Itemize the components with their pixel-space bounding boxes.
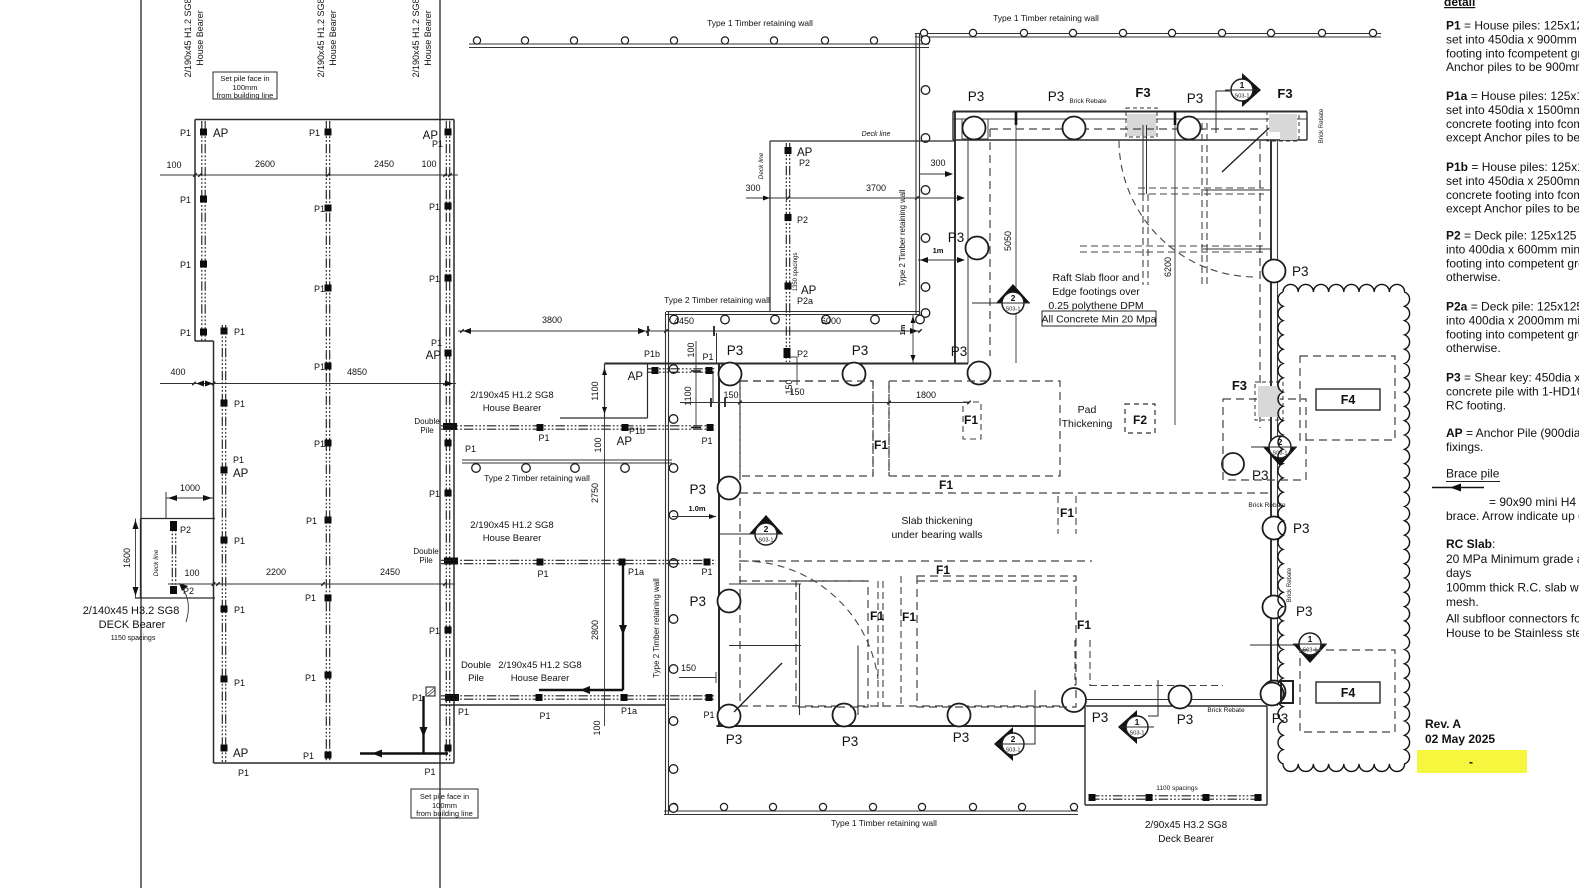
middle section bottom boundary y=705 <box>440 704 666 706</box>
svg-text:Brick Rebate: Brick Rebate <box>1207 707 1245 714</box>
piles on column 1b <box>221 328 228 335</box>
svg-text:P1: P1 <box>539 711 550 721</box>
svg-text:from building line: from building line <box>416 809 473 818</box>
svg-text:Deck line: Deck line <box>153 549 160 576</box>
svg-text:150: 150 <box>681 663 696 673</box>
P3 circle on dashed zone <box>1222 453 1244 475</box>
svg-text:F1: F1 <box>936 563 950 577</box>
house slab top wall band with brick rebate <box>953 111 1307 113</box>
svg-text:P1a = House piles: 125x125 H5: P1a = House piles: 125x125 H5 <box>1446 89 1579 103</box>
svg-text:300: 300 <box>930 158 945 168</box>
150/1800 dimension line y=402.5 <box>680 402 969 404</box>
svg-text:F1: F1 <box>1077 618 1091 632</box>
svg-text:3800: 3800 <box>542 315 562 325</box>
svg-text:Double: Double <box>461 660 491 671</box>
svg-text:F4: F4 <box>1341 686 1356 700</box>
svg-text:Double: Double <box>414 417 440 426</box>
braced pile P1 (hatched) <box>426 687 435 696</box>
P3 circles: left edge <box>966 237 989 260</box>
section marker 2 S03-1 (upper left) <box>972 284 1030 314</box>
dimension line y=175 (100/2600/2450/100) <box>160 174 458 176</box>
set pile face note box (bottom) <box>411 789 478 818</box>
svg-text:P3: P3 <box>1187 91 1204 106</box>
dashed wall footing y=246/252 <box>1080 245 1264 247</box>
svg-text:100: 100 <box>166 160 181 170</box>
svg-text:P1: P1 <box>458 707 469 717</box>
dashed wall footing y=188/194 <box>1138 187 1264 189</box>
svg-text:F3: F3 <box>1277 86 1292 101</box>
svg-text:P1: P1 <box>465 444 476 454</box>
Type 2 timber retaining wall (vertical left, x=667) <box>665 312 667 814</box>
svg-text:AP: AP <box>628 371 644 383</box>
svg-text:P1: P1 <box>180 260 191 270</box>
Type 2 timber retaining wall (horizontal lower, y=460) <box>462 459 672 461</box>
svg-text:P1: P1 <box>314 439 325 449</box>
5050 dimension (vertical) <box>1015 113 1017 363</box>
F1 pair x=878/883 <box>877 581 879 707</box>
svg-text:P2: P2 <box>799 158 810 168</box>
svg-text:2/190x45 H1.2 SG8: 2/190x45 H1.2 SG8 <box>183 0 193 78</box>
svg-text:S03-1: S03-1 <box>759 538 774 544</box>
svg-text:Raft Slab floor and: Raft Slab floor and <box>1053 272 1140 284</box>
svg-text:1: 1 <box>1135 717 1140 727</box>
P3 circles: right edge <box>1263 260 1286 283</box>
svg-text:House Bearer: House Bearer <box>483 533 542 544</box>
svg-text:100: 100 <box>686 342 696 357</box>
svg-text:Rev. A: Rev. A <box>1425 717 1461 731</box>
1.0m arrow (to slab edge) <box>672 516 716 518</box>
section marker 2 S03-1 (right) <box>1251 436 1297 466</box>
svg-text:1m: 1m <box>933 246 944 255</box>
svg-text:P3: P3 <box>726 732 743 747</box>
house slab left edge band <box>954 112 956 364</box>
brace arrow horizontal (left grid) <box>360 752 448 754</box>
piles on column 3 <box>445 129 452 136</box>
svg-text:P2: P2 <box>180 525 191 535</box>
house pile grid outline (left block) <box>195 119 454 121</box>
svg-text:days: days <box>1446 566 1471 580</box>
svg-text:100: 100 <box>592 720 602 735</box>
svg-text:P3: P3 <box>1272 711 1289 726</box>
svg-text:Pile: Pile <box>468 673 484 684</box>
svg-text:2450: 2450 <box>380 567 400 577</box>
svg-text:100: 100 <box>593 437 603 452</box>
svg-text:2: 2 <box>1011 293 1016 303</box>
section marker 2 S03-1 (bottom) <box>994 690 1035 761</box>
svg-text:RC footing.: RC footing. <box>1446 398 1506 412</box>
door swing arc (bottom) <box>742 561 878 679</box>
svg-text:House Bearer: House Bearer <box>328 10 338 66</box>
P3 circles: top band <box>963 117 986 140</box>
svg-text:Brace pile: Brace pile <box>1446 467 1500 481</box>
svg-text:P1 = House piles: 125x125 H5: P1 = House piles: 125x125 H5 SG8 <box>1446 19 1579 33</box>
svg-text:AP = Anchor Pile (900dia min): AP = Anchor Pile (900dia min) with M16 <box>1446 426 1579 440</box>
svg-text:P1a: P1a <box>621 706 637 716</box>
svg-text:P1: P1 <box>234 605 245 615</box>
dimension line y=584 (100/2200/2450) <box>168 583 455 585</box>
P3 circles: slab edge y=363 <box>719 363 742 386</box>
svg-text:P1: P1 <box>701 567 712 577</box>
svg-text:Deck Bearer: Deck Bearer <box>1158 834 1214 845</box>
small dashed box C with F1 <box>963 402 981 439</box>
svg-text:DECK Bearer: DECK Bearer <box>99 619 166 631</box>
svg-text:Set pile face in: Set pile face in <box>220 74 269 83</box>
retaining wall dimension line y=331 (3800/4450/6000) <box>458 330 920 332</box>
svg-text:Double: Double <box>413 547 439 556</box>
svg-text:1m: 1m <box>898 324 907 335</box>
deck bump outline (left) <box>141 518 216 520</box>
Type 1 timber retaining wall (top-right segment) <box>915 33 1381 35</box>
svg-text:Brick Rebate: Brick Rebate <box>1319 108 1325 143</box>
svg-text:Pile: Pile <box>419 556 433 565</box>
svg-text:P1: P1 <box>314 284 325 294</box>
house bearer column 2 (x=328) <box>325 121 327 762</box>
svg-text:Brick Rebate: Brick Rebate <box>1287 567 1293 602</box>
F1 wall pair between rooms <box>872 381 874 476</box>
svg-text:F1: F1 <box>902 610 916 624</box>
notch box around AP bearer row <box>604 364 606 419</box>
bearer row y=697.5 <box>441 695 716 697</box>
svg-text:House Bearer: House Bearer <box>423 10 433 66</box>
F3 pad top (shaded) <box>1127 114 1156 136</box>
svg-text:1100 spacings: 1100 spacings <box>1156 785 1198 792</box>
svg-text:Type 1 Timber retaining wal: Type 1 Timber retaining wall <box>707 18 813 28</box>
svg-text:P1b = House piles: 125x125 H5: P1b = House piles: 125x125 H5 <box>1446 160 1579 174</box>
svg-text:under bearing walls: under bearing walls <box>891 529 982 541</box>
svg-text:1.0m: 1.0m <box>688 504 705 513</box>
svg-text:P1: P1 <box>429 626 440 636</box>
svg-text:P1: P1 <box>703 710 714 720</box>
svg-text:Slab thickening: Slab thickening <box>901 515 972 527</box>
dashed zone right (x=1223) <box>1223 399 1306 480</box>
svg-text:1000: 1000 <box>180 483 200 493</box>
svg-text:P1: P1 <box>314 362 325 372</box>
door swing arc (top) <box>1119 141 1256 277</box>
yellow highlight <box>1417 750 1527 773</box>
svg-text:P1: P1 <box>432 139 443 149</box>
rebate box top-left corner <box>962 119 988 139</box>
deck bearer column (x=174) <box>171 522 173 594</box>
piles P1/AP on column 1 <box>200 129 207 136</box>
svg-text:All subfloor connectors for th: All subfloor connectors for the <box>1446 612 1579 626</box>
svg-text:concrete footing into fcompete: concrete footing into fcompetent <box>1446 117 1579 131</box>
edge footing dashed (right inner) <box>1259 141 1261 428</box>
svg-text:Set pile face in: Set pile face in <box>420 792 469 801</box>
P3 circles: left edge lower slab <box>718 477 741 500</box>
svg-text:otherwise.: otherwise. <box>1446 270 1501 284</box>
site boundary line right <box>439 0 441 888</box>
svg-text:P1: P1 <box>537 569 548 579</box>
dimension line y=198 (300/3700) <box>746 197 963 199</box>
Type 2 timber retaining wall (horizontal mid, y=312) <box>666 311 920 313</box>
dimension 300 (top right of middle deck) <box>920 173 952 175</box>
site boundary line left <box>140 0 142 888</box>
house bearer column 3 (x=448) <box>445 121 447 762</box>
bearer row y=427.5 <box>441 425 716 427</box>
svg-text:detail: detail <box>1444 0 1475 9</box>
lower slab left edge x=718 <box>712 371 714 403</box>
svg-text:P1: P1 <box>306 516 317 526</box>
diagonal line (top-right) <box>1222 128 1269 172</box>
svg-text:AP: AP <box>617 436 633 448</box>
svg-text:P1: P1 <box>429 274 440 284</box>
svg-text:-: - <box>1469 755 1473 769</box>
svg-text:F1: F1 <box>964 413 978 427</box>
svg-text:2800: 2800 <box>590 620 600 640</box>
svg-text:20 MPa Minimum grade at 28: 20 MPa Minimum grade at 28 <box>1446 552 1579 566</box>
svg-text:set into 450dia x 2500mm deep: set into 450dia x 2500mm deep <box>1446 174 1579 188</box>
edge footing dashed (left/top inner) <box>989 129 991 356</box>
section marker 1 S03-1 (right lower) <box>1250 633 1327 663</box>
svg-text:Brick Rebate: Brick Rebate <box>1069 98 1107 105</box>
svg-text:P1: P1 <box>702 352 713 362</box>
svg-text:1600: 1600 <box>122 548 132 568</box>
svg-text:100: 100 <box>184 568 199 578</box>
svg-text:150: 150 <box>723 390 738 400</box>
svg-text:AP: AP <box>426 350 442 362</box>
svg-text:P2 = Deck pile: 125x125 H5 SG: P2 = Deck pile: 125x125 H5 SG8 set <box>1446 229 1579 243</box>
svg-text:P3: P3 <box>1292 264 1309 279</box>
svg-text:set into 450dia x 900mm deep c: set into 450dia x 900mm deep concrete <box>1446 32 1579 46</box>
svg-text:2: 2 <box>764 524 769 534</box>
svg-text:1800: 1800 <box>916 390 936 400</box>
deck outline (bottom right) <box>1086 699 1267 701</box>
svg-text:4850: 4850 <box>347 367 367 377</box>
svg-text:1: 1 <box>1308 634 1313 644</box>
F4 dashed zone top <box>1300 356 1395 440</box>
svg-text:300: 300 <box>745 183 760 193</box>
F1 pad mid-right <box>1057 496 1059 534</box>
svg-text:set into 450dia x 1500mm deep: set into 450dia x 1500mm deep <box>1446 103 1579 117</box>
svg-text:P3: P3 <box>852 343 869 358</box>
svg-text:P1: P1 <box>180 128 191 138</box>
house bearer column 1b (x=224) <box>221 325 223 762</box>
svg-text:All Concrete Min 20 Mpa: All Concrete Min 20 Mpa <box>1042 314 1157 326</box>
svg-text:P3: P3 <box>948 230 965 245</box>
svg-text:P1b: P1b <box>629 426 645 436</box>
svg-text:P2a: P2a <box>797 296 813 306</box>
svg-text:P3: P3 <box>727 343 744 358</box>
svg-text:2/190x45 H1.2 SG8: 2/190x45 H1.2 SG8 <box>470 520 553 531</box>
svg-text:F3: F3 <box>1135 85 1150 100</box>
svg-text:1: 1 <box>1240 80 1245 90</box>
svg-text:6000: 6000 <box>821 316 841 326</box>
F4 box bottom <box>1316 682 1380 703</box>
svg-text:except Anchor piles to be 1500: except Anchor piles to be 1500 <box>1446 131 1579 145</box>
double piles on column 3 <box>443 423 457 430</box>
bearing wall lines (lower-left room) <box>729 583 801 585</box>
svg-text:F1: F1 <box>870 609 884 623</box>
house bearer column 1 (x=203.5) <box>201 121 203 341</box>
svg-text:02 May 2025: 02 May 2025 <box>1425 732 1495 746</box>
svg-text:400: 400 <box>170 367 185 377</box>
svg-text:P2: P2 <box>797 349 808 359</box>
svg-text:P1: P1 <box>303 751 314 761</box>
svg-text:Brick Rebate: Brick Rebate <box>1248 502 1286 509</box>
svg-text:P3: P3 <box>1293 521 1310 536</box>
svg-text:P1: P1 <box>305 593 316 603</box>
svg-text:Type 1 Timber retaining wal: Type 1 Timber retaining wall <box>993 13 1099 23</box>
dashed room box A2 <box>796 581 868 707</box>
F1 pair x=901 <box>900 576 902 707</box>
brace arrow (middle rows) <box>622 565 624 690</box>
deck bearer (bottom) <box>1090 795 1262 797</box>
deck bearer (x=788) <box>785 143 787 362</box>
F4 box top <box>1316 389 1380 410</box>
dimension 1600 (deck, vertical) <box>135 519 137 599</box>
svg-text:footing into competent ground: footing into competent ground <box>1446 256 1579 270</box>
svg-text:3700: 3700 <box>866 183 886 193</box>
svg-text:S03-1: S03-1 <box>1006 748 1021 754</box>
svg-text:P3: P3 <box>842 734 859 749</box>
svg-text:= 90x90 mini H4 timber: = 90x90 mini H4 timber <box>1489 495 1579 509</box>
svg-text:P3: P3 <box>689 482 706 497</box>
svg-text:AP: AP <box>233 468 249 480</box>
svg-text:P1b: P1b <box>644 349 660 359</box>
deck bearer piles AP/P2/P2a <box>785 147 792 154</box>
svg-text:P1: P1 <box>431 338 442 348</box>
set pile face note box (top) <box>213 72 277 99</box>
svg-text:150: 150 <box>784 379 794 394</box>
svg-text:P1: P1 <box>701 436 712 446</box>
svg-text:P3: P3 <box>1296 604 1313 619</box>
svg-text:AP: AP <box>233 748 249 760</box>
lower slab top edge y=363.5 <box>605 363 969 365</box>
svg-text:concrete footing into fcompete: concrete footing into fcompetent <box>1446 188 1579 202</box>
svg-text:P3: P3 <box>1252 468 1269 483</box>
svg-text:2750: 2750 <box>590 483 600 503</box>
svg-text:Pile: Pile <box>420 426 434 435</box>
svg-text:P3: P3 <box>1092 710 1109 725</box>
svg-text:P1: P1 <box>234 327 245 337</box>
Type 1 timber retaining wall (bottom segment) <box>664 810 1078 812</box>
svg-text:2/190x45 H1.2 SG8: 2/190x45 H1.2 SG8 <box>411 0 421 78</box>
svg-text:AP: AP <box>213 128 229 140</box>
svg-text:P1: P1 <box>234 678 245 688</box>
svg-text:100: 100 <box>421 159 436 169</box>
P3 circles: bottom edge <box>833 704 856 727</box>
svg-text:P1: P1 <box>538 433 549 443</box>
All Concrete box <box>1042 311 1156 326</box>
svg-text:1150 spacings: 1150 spacings <box>111 635 156 642</box>
dashed posts under P3 (x=1202) <box>1201 123 1203 285</box>
svg-text:House to be Stainless steel.: House to be Stainless steel. <box>1446 626 1579 640</box>
svg-text:1350 spacings: 1350 spacings <box>793 253 799 292</box>
svg-text:P1: P1 <box>309 128 320 138</box>
svg-text:P1: P1 <box>180 328 191 338</box>
svg-text:4450: 4450 <box>674 316 694 326</box>
svg-text:Type 1 Timber retaining wal: Type 1 Timber retaining wall <box>831 818 937 828</box>
dashed verticals near deck corner <box>1074 640 1076 686</box>
svg-text:2450: 2450 <box>374 159 394 169</box>
svg-text:P1: P1 <box>238 768 249 778</box>
svg-text:into 400dia x 2000mm min deep: into 400dia x 2000mm min deep <box>1446 313 1579 327</box>
svg-text:House Bearer: House Bearer <box>511 673 570 684</box>
dashed line y=581 <box>739 580 868 582</box>
dimension line y=384 (400/4850) <box>160 383 456 385</box>
svg-text:2: 2 <box>1011 734 1016 744</box>
svg-text:Type 2 Timber retaining wall: Type 2 Timber retaining wall <box>652 578 661 678</box>
deck piles P2 (left deck) <box>170 521 177 531</box>
svg-text:fixings.: fixings. <box>1446 440 1483 454</box>
svg-text:P1a: P1a <box>628 567 644 577</box>
dashed line y=493 with F1 <box>740 492 1268 494</box>
svg-text:P3: P3 <box>951 344 968 359</box>
svg-text:footing into competent ground: footing into competent ground <box>1446 327 1579 341</box>
dashed post continuation below F3 pad <box>1142 194 1144 285</box>
svg-text:100mm thick R.C. slab with 665: 100mm thick R.C. slab with 665 <box>1446 581 1579 595</box>
dashed room box B <box>889 381 1060 476</box>
svg-text:2/190x45 H1.2 SG8: 2/190x45 H1.2 SG8 <box>498 660 581 671</box>
lower slab bottom edge y=726 <box>717 725 1086 727</box>
svg-text:Deck line: Deck line <box>758 152 765 179</box>
F3 pad right (shaded) <box>1258 386 1280 417</box>
svg-text:otherwise.: otherwise. <box>1446 341 1501 355</box>
svg-text:brace. Arrow indicate up direc: brace. Arrow indicate up direction <box>1446 509 1579 523</box>
svg-text:Edge footings over: Edge footings over <box>1052 286 1140 298</box>
svg-text:P3: P3 <box>1177 712 1194 727</box>
svg-text:2/140x45 H3.2 SG8: 2/140x45 H3.2 SG8 <box>83 605 180 617</box>
Type 2 timber retaining wall (vertical right, x=917.5) <box>915 33 917 315</box>
section marker 1 S03-1 (deck) <box>1118 680 1158 744</box>
svg-text:Deck line: Deck line <box>862 131 891 138</box>
svg-text:F1: F1 <box>874 438 888 452</box>
svg-text:5050: 5050 <box>1003 231 1013 251</box>
post lines under F3 top pad <box>1142 125 1144 194</box>
revision cloud <box>1278 284 1410 771</box>
bearer row y=562 <box>441 559 716 561</box>
house slab right edge band <box>1270 140 1272 706</box>
svg-text:P2a = Deck pile: 125x125 H5 SG: P2a = Deck pile: 125x125 H5 SG8 set <box>1446 300 1579 314</box>
brick rebate block (deck corner) <box>1281 681 1293 703</box>
svg-text:P1: P1 <box>305 673 316 683</box>
svg-text:P1: P1 <box>429 202 440 212</box>
svg-text:F2: F2 <box>1133 413 1147 427</box>
svg-text:Type 2 Timber retaining wal: Type 2 Timber retaining wall <box>664 295 770 305</box>
middle deck outline <box>770 140 954 142</box>
svg-text:P1: P1 <box>234 399 245 409</box>
dashed line y=561 with F1 <box>739 560 1092 562</box>
svg-text:1100: 1100 <box>590 381 600 400</box>
section marker 2 S03-1 (middle) <box>720 515 783 545</box>
svg-text:S03-1: S03-1 <box>1130 731 1145 737</box>
svg-text:concrete pile with 1-HD16 full: concrete pile with 1-HD16 full depth <box>1446 384 1579 398</box>
6200 dimension (vertical) <box>1174 115 1176 425</box>
piles on column 2 <box>325 129 332 136</box>
svg-text:0.25 polythene DPM: 0.25 polythene DPM <box>1048 300 1143 312</box>
brace arrow vertical (left grid) <box>422 696 424 754</box>
bearer row y=370.5 <box>648 368 717 370</box>
svg-text:footing into fcompetent ground: footing into fcompetent ground <box>1446 46 1579 60</box>
svg-text:2200: 2200 <box>266 567 286 577</box>
svg-text:P1: P1 <box>424 767 435 777</box>
svg-text:P3: P3 <box>968 89 985 104</box>
svg-text:S03-1: S03-1 <box>1235 94 1250 100</box>
P3 circles deck top <box>1169 686 1192 709</box>
svg-text:F3: F3 <box>1232 378 1247 393</box>
svg-text:mesh.: mesh. <box>1446 595 1479 609</box>
svg-text:P3: P3 <box>953 730 970 745</box>
svg-text:from building line: from building line <box>217 91 274 100</box>
svg-text:P1: P1 <box>233 455 244 465</box>
svg-text:into 400dia x 600mm min deep: into 400dia x 600mm min deep <box>1446 242 1579 256</box>
svg-text:Anchor piles to be 900mm deep: Anchor piles to be 900mm deep <box>1446 60 1579 74</box>
1m arrow (left edge) <box>918 259 963 261</box>
svg-text:House Bearer: House Bearer <box>483 403 542 414</box>
diagonal line (bottom-left) <box>734 663 782 712</box>
svg-text:F4: F4 <box>1341 393 1356 407</box>
slab footing dashed offsets (lower-left section) <box>739 381 741 707</box>
